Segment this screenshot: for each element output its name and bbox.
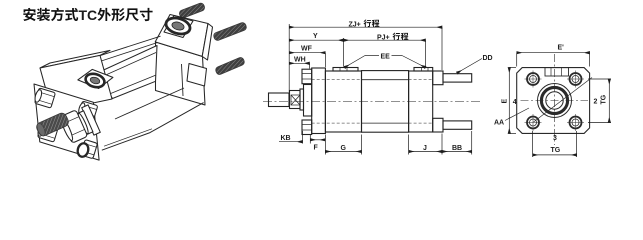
svg-text:2: 2: [594, 99, 598, 106]
rear head: [409, 71, 433, 132]
EE leaders: [365, 55, 379, 57]
svg-text:KB: KB: [281, 135, 291, 142]
threaded rod tip: [35, 112, 70, 138]
AA leader: [505, 108, 529, 121]
svg-text:G: G: [341, 145, 347, 152]
tie rod stud far-top: [178, 2, 205, 19]
svg-text:Y: Y: [313, 33, 318, 40]
barrel end edge at cap: [182, 64, 184, 96]
port boss behind: [545, 68, 569, 76]
dim PJ: [344, 39, 426, 41]
port boss on head: [78, 69, 113, 88]
tie rod stud right-upper: [213, 22, 248, 42]
bottom far tie rod: [115, 88, 184, 119]
svg-text:EE: EE: [381, 54, 391, 61]
flange nut top-left: [33, 87, 55, 108]
title: 安装方式TC外形尺寸: [23, 7, 152, 23]
centerline: [263, 101, 480, 103]
ext line port2 center: [425, 40, 427, 66]
svg-text:F: F: [314, 145, 319, 152]
dim ZJ: [289, 26, 442, 28]
nut TR: [567, 71, 584, 88]
head body: [325, 71, 361, 132]
svg-text:BB: BB: [452, 145, 462, 152]
rod nut with cross: [290, 91, 301, 109]
svg-text:3: 3: [553, 135, 557, 142]
front flange plate: [312, 68, 326, 134]
ext line left (rod face): [288, 24, 290, 92]
front flange plate: [34, 84, 99, 160]
bore circles: [538, 84, 572, 118]
flange plate outline with chamfers: [517, 68, 590, 134]
head block front face: [40, 55, 112, 111]
svg-text:WH: WH: [294, 57, 306, 64]
tie rod nut rear-top: [433, 71, 443, 85]
gland disc: [82, 105, 101, 135]
nut BL: [525, 114, 542, 131]
rear tie-rod boss on cap face: [187, 64, 207, 87]
svg-text:PJ+: PJ+: [377, 34, 390, 41]
svg-text:TG: TG: [601, 94, 608, 104]
port boss 1: [333, 68, 358, 72]
centerlines: [521, 100, 589, 102]
dim KB: [279, 141, 303, 143]
ext line WF: [324, 53, 326, 67]
dim Y: [289, 39, 343, 41]
middle view dimensions: [279, 24, 482, 155]
tie rod nut front-top: [302, 69, 312, 84]
flange nut bottom-right with washer ring: [80, 140, 97, 159]
gland: [304, 85, 312, 117]
diagonal leader through bore: [534, 78, 593, 123]
barrel: [362, 71, 409, 133]
piston rod end: [269, 93, 290, 107]
tie rod stud right-lower: [215, 56, 246, 75]
head top face band: [40, 50, 110, 68]
front port ring: [84, 72, 106, 90]
svg-text:E': E': [558, 45, 565, 52]
svg-text:DD: DD: [483, 55, 493, 62]
nut TL: [525, 71, 542, 88]
right view texts: [494, 45, 608, 155]
ext line ZJ right (nut face): [441, 27, 443, 70]
port boss 2: [414, 68, 433, 72]
dim WH: [289, 62, 309, 64]
barrel tube: [96, 46, 157, 99]
dim G J BB row: [324, 135, 326, 155]
dim E': [516, 53, 518, 67]
tie rod rear-bottom: [443, 121, 472, 129]
nut BR: [567, 114, 584, 131]
svg-text:WF: WF: [301, 46, 313, 53]
dim E left: [509, 67, 516, 69]
svg-text:J: J: [423, 145, 427, 152]
rear port boss pad: [164, 16, 193, 38]
right view dimensions: [509, 53, 611, 157]
svg-text:TC: TC: [79, 7, 98, 23]
dim WF: [289, 52, 325, 54]
middle view dim texts: [281, 19, 493, 152]
svg-text:E: E: [502, 99, 509, 104]
collar: [300, 89, 304, 110]
rear cap top face: [155, 15, 208, 57]
rear cap front face: [156, 42, 206, 105]
tie rod rear-top: [443, 74, 472, 82]
tie rod hidden lines through heads: [312, 79, 362, 81]
bottom near tie rod silhouette: [102, 103, 204, 151]
dim TG bottom: [532, 131, 534, 157]
svg-text:4: 4: [513, 99, 517, 106]
dim TG right: [588, 78, 611, 80]
rear port ring: [164, 15, 192, 36]
washer disc: [77, 111, 93, 135]
rear cap right side face: [202, 24, 212, 61]
DD leader: [457, 59, 482, 74]
svg-text:ZJ+: ZJ+: [349, 21, 361, 28]
rod hex nut: [59, 110, 88, 144]
flange nut bottom-left: [36, 121, 58, 142]
ext line WH: [309, 63, 311, 68]
tie rod nut rear-bottom: [433, 118, 443, 132]
svg-text:TG: TG: [551, 147, 561, 154]
dim F: [309, 135, 311, 144]
tie rod nut front-bottom: [302, 120, 312, 135]
svg-text:AA: AA: [494, 120, 504, 127]
ext line port1 center: [343, 38, 345, 67]
flange nut top-right: [77, 101, 98, 120]
